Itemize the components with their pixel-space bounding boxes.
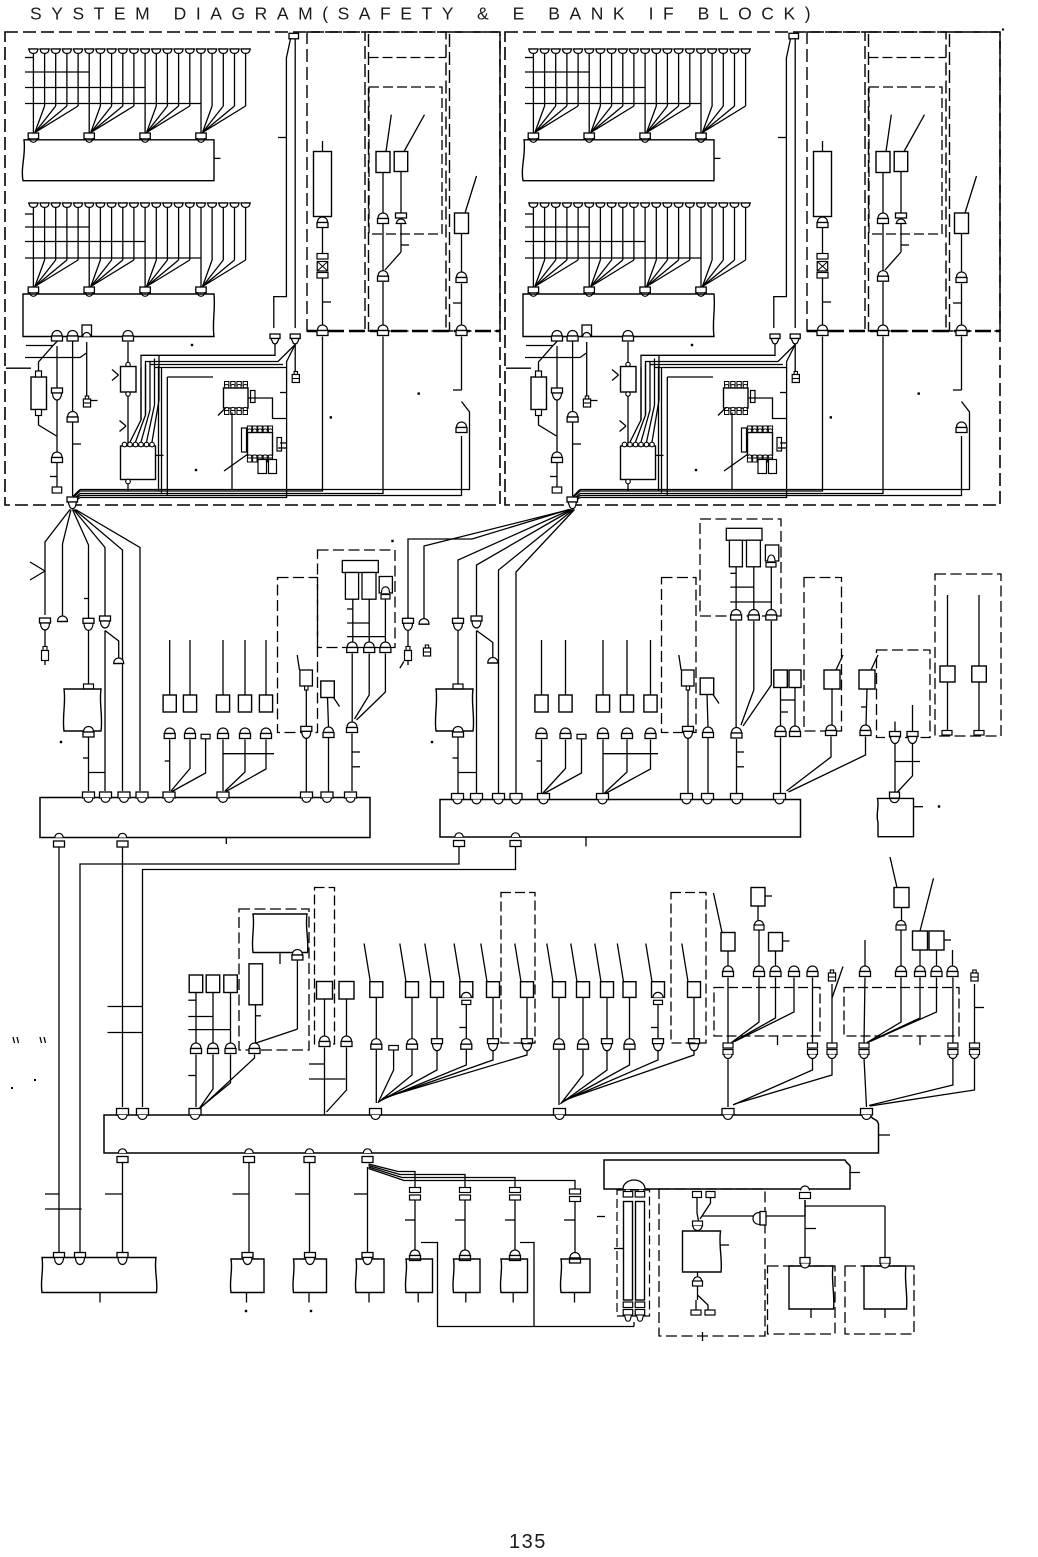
load square S4	[617, 944, 636, 998]
connector V4	[931, 966, 942, 977]
dashed box V	[844, 988, 959, 1037]
stray marks left	[11, 1037, 46, 1089]
terminal F1	[42, 647, 49, 661]
connector N1	[683, 726, 694, 738]
bottom box x575	[560, 1259, 590, 1303]
load square Q5	[481, 944, 500, 998]
connector Q1	[371, 1039, 382, 1050]
terminal W1b	[706, 1192, 715, 1198]
connector K1b	[249, 1043, 260, 1054]
wire loop L1	[167, 376, 213, 378]
dot Rd4	[695, 469, 697, 471]
connector F3b	[83, 727, 94, 738]
junction block RB	[523, 294, 714, 337]
connector R5	[645, 728, 656, 739]
bus3 right tick	[879, 1134, 891, 1136]
junction block LB	[23, 294, 214, 337]
wire LCH1 w2	[323, 278, 332, 325]
bus1 connector x88.5	[83, 792, 95, 802]
connector R3	[598, 728, 609, 739]
wire L4 top	[244, 640, 246, 695]
load square V2	[913, 878, 934, 950]
load square K2	[189, 975, 203, 993]
wire bt x575	[564, 1202, 575, 1253]
wire RR1 top	[539, 342, 558, 372]
fuse G3	[453, 684, 463, 689]
wire LCH1 w1	[322, 228, 324, 254]
rail top connectors	[623, 1192, 645, 1198]
stub T box	[777, 1036, 779, 1045]
svg-text:135: 135	[509, 1531, 547, 1553]
wire Rw1	[526, 346, 557, 453]
wire T conv	[728, 978, 813, 1044]
connector V5	[947, 966, 958, 977]
bus1 bottom connector 2	[117, 833, 128, 847]
connector T10	[827, 1043, 837, 1059]
bus1 connector x124	[118, 792, 130, 802]
bus1 connector x105.5	[100, 792, 112, 802]
wire V8 diag	[870, 1058, 975, 1106]
connector M2	[323, 727, 334, 738]
switch RS3	[955, 176, 977, 234]
bottom box x515	[500, 1259, 527, 1303]
wire loop R1	[667, 376, 713, 378]
load square R4	[620, 695, 633, 712]
arrow La1	[112, 370, 119, 381]
connector N5	[860, 725, 871, 736]
fuse stack RCH1	[817, 254, 828, 279]
connector Lc1	[52, 388, 63, 400]
wire RR1 bottom	[539, 416, 557, 437]
transformer left	[342, 561, 378, 600]
load square N4	[824, 655, 843, 689]
dashed box rails	[617, 1190, 650, 1316]
wire Rtick3	[780, 442, 787, 444]
connector M3b	[364, 642, 375, 653]
wire loop R2	[659, 366, 668, 495]
ic LU2 bottom pins	[247, 455, 272, 462]
dot top right corner	[1002, 29, 1004, 31]
wire V conv	[864, 978, 953, 1044]
wire W1 top	[697, 1198, 711, 1222]
wire drop B	[80, 847, 459, 1253]
pin array L2 wires	[33, 207, 245, 287]
wire RCH1 w1	[822, 228, 824, 254]
connector Rc2	[567, 412, 578, 423]
dashed box K1	[239, 909, 309, 1050]
connector N3b	[748, 610, 759, 621]
wire Ltick2	[280, 392, 287, 394]
bus3 bottom connector x309.5	[304, 1149, 315, 1163]
wire Ltw5	[80, 345, 295, 498]
bottom box x465	[453, 1259, 480, 1303]
bell inside Q4	[461, 992, 471, 1004]
wire RCH2 w1	[883, 172, 901, 214]
connector RCH1 c1	[817, 217, 828, 228]
wire Rtick2	[780, 392, 787, 394]
wire LCH2 w4	[80, 337, 383, 494]
connector G1	[403, 618, 414, 630]
bus2 bottom connector 1	[454, 833, 465, 847]
bus2 connector x457.5	[452, 794, 464, 804]
connector M3c	[380, 642, 391, 653]
connector LCH1 c1	[317, 217, 328, 228]
load square R2	[559, 695, 572, 712]
connector T2	[723, 966, 734, 977]
wire Rtw4	[646, 345, 796, 416]
wire V bus	[864, 1058, 867, 1107]
wire RCH2 w2	[883, 224, 909, 271]
wire N3 down	[736, 621, 771, 728]
wire K1 down	[198, 1055, 254, 1111]
connector N3a	[731, 610, 742, 621]
arrow Ra1	[612, 370, 619, 381]
wire R4 top	[626, 640, 628, 695]
unit box K1	[252, 914, 307, 953]
wire LCH3 w1	[461, 234, 463, 273]
connector LCH3 c2	[456, 325, 467, 336]
dome connector G2	[419, 619, 430, 625]
dashed box W2	[768, 1266, 836, 1334]
connector below block LB x72.6	[67, 331, 78, 342]
terminal LU2b	[269, 460, 277, 474]
pin array L1 tie wires	[25, 58, 201, 104]
inner dashed box LCH2	[369, 87, 442, 234]
connector below block LB x128	[123, 331, 134, 342]
wire conv L123	[165, 739, 206, 792]
terminal RU2b	[769, 460, 777, 474]
wire L3 top	[222, 640, 224, 695]
connector bt2 x415	[410, 1250, 421, 1261]
connector LCH2 c2	[396, 213, 407, 224]
wire T9	[832, 967, 843, 1044]
unit box W2	[789, 1266, 834, 1318]
wire K1 diag	[256, 961, 297, 1044]
connector row R2	[528, 287, 706, 296]
wire Lw2	[520, 1243, 534, 1327]
unit box K1 stem	[279, 954, 281, 965]
load square T2	[714, 893, 736, 951]
wire T tops	[728, 906, 776, 966]
wire LCH2 w1	[383, 172, 401, 214]
wire Rw3	[506, 342, 587, 396]
dashed box N3	[700, 519, 781, 616]
wire V9 diag	[869, 1058, 953, 1106]
bus2 connector x543.5	[538, 794, 550, 804]
connector S5	[653, 1039, 664, 1051]
wire ticks left drops	[45, 1007, 143, 1210]
open arrow symbol left	[30, 562, 45, 580]
wire M3 ticks	[352, 752, 360, 767]
relay box RRB1	[621, 442, 664, 491]
wire Ltw3	[141, 345, 275, 421]
wire RCH2 w3	[882, 282, 884, 325]
bus2 connector x516	[510, 794, 522, 804]
wire LCH2 w2	[383, 224, 409, 271]
connector S2	[578, 1039, 589, 1050]
bus3 connector x122.5	[117, 1109, 129, 1120]
dashed box N1	[662, 578, 697, 733]
connector below block LB x57	[52, 331, 63, 342]
rail bars	[624, 1202, 645, 1301]
wire RCH2 w4	[580, 337, 883, 494]
ic LU1 bottom pins	[225, 407, 248, 414]
sensor N1	[679, 655, 694, 690]
pin array R2 wires	[533, 207, 745, 287]
switch RS1	[876, 115, 891, 173]
connector below block RB x72.6	[567, 331, 578, 342]
wire drop A	[58, 847, 60, 1253]
connector below block RB x128	[623, 331, 634, 342]
wire Rw4	[627, 342, 629, 363]
dot Rd2	[830, 416, 832, 418]
switch LS2	[394, 115, 424, 172]
wire W2	[804, 1200, 806, 1258]
terminal Lt1	[52, 487, 62, 493]
fuse R6	[577, 734, 586, 739]
pin array L2 terminals	[28, 203, 251, 207]
connector RCH2 c4	[878, 325, 889, 336]
dashed box Q6	[501, 893, 535, 1044]
junction bus bar 2	[440, 800, 801, 838]
wire loop L6	[278, 447, 287, 449]
wire R2 top	[565, 640, 567, 695]
wire G3c	[453, 738, 477, 800]
wire LCH1 w3	[80, 337, 323, 492]
connector Q6	[522, 1039, 533, 1051]
relay box LRB1	[121, 442, 164, 491]
wire W1 right tick	[721, 1244, 730, 1246]
junction bus bar 3	[104, 1115, 879, 1153]
dome connector F4b	[113, 658, 124, 664]
wire LCH2 w3	[382, 282, 384, 325]
connector bt x465	[460, 1188, 471, 1201]
wire Rw1b	[550, 463, 557, 487]
load square Q6	[515, 944, 534, 998]
box2 right tick	[850, 1172, 860, 1174]
wire Ltick3	[280, 442, 287, 444]
wire Q group	[376, 997, 527, 1103]
wire F1	[44, 630, 46, 665]
bus2 connector x707.5	[702, 794, 714, 804]
connector Q5	[488, 1039, 499, 1051]
key symbol G2b	[423, 645, 430, 656]
connector K2	[191, 1043, 202, 1054]
connector G3b	[453, 727, 464, 738]
wire RCH3 w3	[953, 337, 962, 391]
connector Lc2	[67, 412, 78, 423]
connector P1	[775, 726, 786, 737]
wire bt x465	[455, 1200, 465, 1250]
load square S2	[571, 944, 590, 998]
wire Lw1	[421, 1243, 634, 1327]
wire Rtick1	[778, 137, 786, 139]
dot Rd3	[918, 392, 920, 394]
unit box W3	[864, 1266, 907, 1318]
wire RCH3 w2	[953, 284, 962, 326]
junction bus bar 1	[40, 798, 370, 838]
wire N3 ties	[730, 567, 771, 610]
bus3 bottom connector x367.5	[362, 1149, 373, 1163]
connector Ltop	[289, 33, 299, 39]
ic RU1 bottom pins	[725, 407, 748, 414]
load square S3	[595, 944, 614, 998]
wire link1	[702, 1200, 805, 1216]
wire K234	[188, 993, 230, 1109]
dot bb2	[310, 1310, 312, 1312]
connector bt2 x575	[570, 1253, 581, 1264]
bus3 connector x195	[189, 1109, 201, 1120]
wire M1	[305, 690, 307, 792]
wire Rtw5	[580, 345, 795, 498]
switch LS1	[376, 115, 391, 173]
dashed box M3	[318, 550, 396, 648]
connector RCH2 c1	[878, 213, 889, 224]
connector Lout	[67, 497, 78, 509]
connector S1	[554, 1039, 565, 1050]
wire T bus	[728, 1058, 832, 1107]
connector LCH1 c2	[317, 325, 328, 336]
load square R1	[535, 695, 548, 712]
key symbol Rk1	[583, 396, 597, 407]
connector W1	[693, 1221, 703, 1231]
bus2 connector x736.5	[731, 794, 743, 804]
connector RCH2 c3	[878, 271, 889, 282]
sensor M1	[297, 655, 312, 690]
load square R5	[644, 695, 657, 712]
heavy dashed boundary L	[307, 330, 500, 332]
dot bb1	[245, 1310, 247, 1312]
wire fan right	[408, 510, 575, 800]
wire K5	[309, 999, 346, 1115]
load square Q1	[364, 944, 383, 998]
wire RCH3 jog	[580, 402, 970, 490]
connector bt x515	[510, 1188, 521, 1201]
arrow Ra2	[620, 421, 627, 432]
dashed channel LCH2	[369, 32, 447, 331]
bus1 connector x350.5	[345, 792, 357, 802]
bottom box x310	[293, 1259, 327, 1303]
switch RS2	[894, 115, 924, 172]
connector RCH1 c2	[817, 325, 828, 336]
connector T7	[723, 1043, 733, 1059]
load square N7b	[972, 595, 987, 682]
terminal W1c	[691, 1310, 701, 1315]
connector L5	[261, 728, 272, 739]
connector F1	[40, 618, 51, 630]
dashed box N6	[877, 650, 931, 738]
bus1 bottom connector 1	[54, 833, 65, 847]
bus1 connector x223	[217, 792, 229, 802]
pin array R2 tie wires	[525, 214, 701, 258]
connector box2 bottom	[800, 1186, 811, 1198]
wire M3 ties	[347, 599, 385, 642]
load square T3	[769, 933, 790, 952]
wire G3	[457, 631, 459, 690]
bus3 connector x866.5	[861, 1109, 873, 1120]
wire fan LRB1	[130, 356, 159, 443]
wire RCH1 w2	[823, 278, 832, 325]
dashed channel LCH3	[450, 32, 501, 331]
dot Ld3	[418, 392, 420, 394]
bus3 bottom connector x249	[244, 1149, 255, 1163]
load square Q2	[400, 944, 419, 998]
dot right small box	[938, 805, 940, 807]
wire K6	[327, 999, 347, 1112]
relay component LRL1	[121, 362, 137, 396]
load square T1	[751, 888, 772, 907]
ic LU1	[224, 382, 256, 409]
connector W1b	[693, 1277, 703, 1286]
bus3 connector x375.5	[370, 1109, 382, 1120]
connector F3	[83, 618, 94, 630]
wire Ltw1	[274, 39, 291, 328]
wire Lw4	[127, 342, 129, 363]
wire M3 down	[352, 654, 385, 723]
wire col 309.5	[295, 1163, 310, 1253]
load square L1	[163, 695, 176, 712]
wire RCH1 w3	[580, 337, 823, 492]
connector pair Rtp	[770, 334, 800, 344]
connector R1	[536, 728, 547, 739]
wire loop R6	[778, 447, 787, 449]
key symbol V7	[971, 970, 978, 981]
connector V0	[860, 966, 871, 977]
wire L5 top	[265, 640, 267, 695]
load square R3	[596, 695, 609, 712]
wire V7	[975, 984, 985, 1043]
wire loop L3	[231, 413, 233, 490]
dome connector F2	[57, 616, 68, 622]
wire Lw2	[73, 342, 81, 497]
pin array L1 wires	[33, 53, 245, 133]
junction block LA	[22, 140, 220, 181]
connector G3	[453, 618, 464, 630]
wire conv L345	[223, 740, 274, 792]
connector RCH3 c3	[956, 422, 967, 433]
wire G4	[477, 631, 493, 800]
pin array R1 tie wires	[525, 58, 701, 104]
wire N3 ticks	[736, 752, 744, 767]
wire bundle Lconv	[73, 490, 81, 504]
load square V3	[929, 931, 951, 950]
connector row R1	[528, 133, 706, 142]
terminal W1a	[693, 1192, 702, 1198]
wire fan bottom	[369, 1164, 576, 1189]
wire M3 bus	[351, 734, 353, 792]
load square N2	[700, 678, 719, 704]
fuse F3	[84, 684, 94, 689]
wire col 249	[233, 1163, 250, 1253]
wire F3c	[83, 738, 106, 792]
bus3 connector x559.5	[554, 1109, 566, 1120]
wire loop L2	[159, 366, 168, 495]
fuse stack LCH1	[317, 254, 328, 279]
wire W1 bottom	[696, 1272, 708, 1310]
terminal Rt1	[552, 487, 562, 493]
wire W1 stem	[702, 1332, 704, 1341]
rail top dome	[623, 1180, 645, 1189]
small box right	[877, 798, 923, 836]
heavy dashed boundary R	[807, 330, 1000, 332]
connector bb1	[54, 1253, 65, 1265]
wire RCH3 w4	[580, 436, 962, 496]
connector F4	[100, 616, 111, 628]
connector LCH3 c1	[456, 272, 467, 283]
connector N4	[826, 725, 837, 736]
connector RCH2 c2	[896, 213, 907, 224]
bus2 connector x498.5	[493, 794, 505, 804]
